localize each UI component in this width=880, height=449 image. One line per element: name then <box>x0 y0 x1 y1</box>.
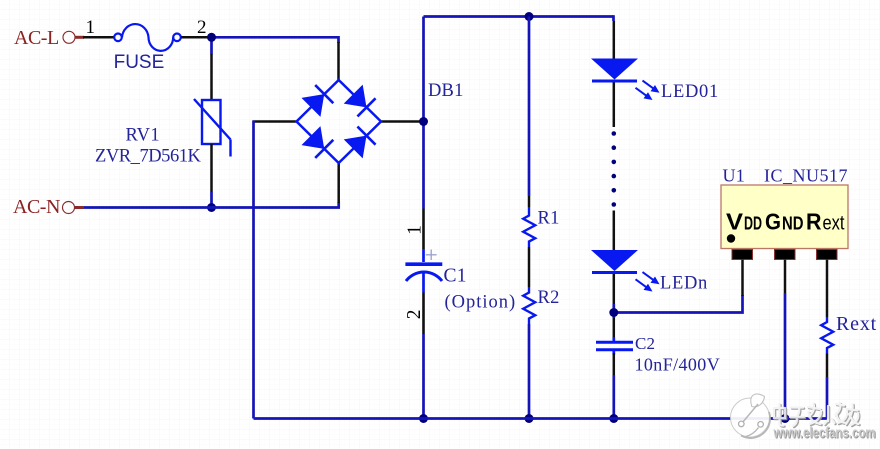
svg-text:Rext: Rext <box>836 313 877 335</box>
pin bridge top <box>337 42 340 81</box>
junction bridge plus <box>419 117 428 126</box>
svg-text:FUSE: FUSE <box>114 52 165 73</box>
dotted wire LED string continuation <box>612 131 617 207</box>
pin wire Rext lower <box>826 354 829 378</box>
pin bridge bottom <box>337 163 340 203</box>
pin wire GND <box>784 260 787 294</box>
svg-text:AC-N: AC-N <box>13 196 60 218</box>
junction C2 bottom <box>609 414 618 423</box>
pin wire VDD <box>741 260 744 297</box>
wire LED branch top corner <box>612 15 615 21</box>
wire fuse to node 2 <box>181 36 209 39</box>
pin RV1 bottom <box>210 144 213 192</box>
watermark text dianzifashaoyou <box>774 403 860 427</box>
wire LEDn to node VDD <box>612 304 615 318</box>
svg-text:G: G <box>765 209 781 235</box>
wire GND to ground rail <box>784 293 787 419</box>
wire C1 to ground rail <box>422 334 425 419</box>
diode D-bottomleft of DB1 <box>301 126 333 158</box>
wire C2 to ground rail <box>612 375 615 419</box>
port AC-N terminal circle <box>63 202 85 214</box>
svg-text:IC_NU517: IC_NU517 <box>764 166 848 186</box>
pin name Rext <box>806 209 845 235</box>
pin C1 pin1 <box>422 209 425 250</box>
pin C2 top <box>613 318 616 337</box>
port AC-L terminal circle <box>63 31 84 43</box>
wire R2 to ground rail <box>528 324 531 419</box>
wire node 2 down stub <box>210 37 213 54</box>
capacitor C1 <box>405 249 442 293</box>
svg-text:R: R <box>806 209 822 235</box>
resistor R1 <box>523 207 535 247</box>
wire R1 to R2 <box>528 247 531 287</box>
op-amp U1 body <box>721 185 848 249</box>
resistor R2 <box>523 287 535 324</box>
pin 1 marker dot <box>727 234 735 242</box>
LED01 light arrows <box>636 81 660 100</box>
wire node to VDD pin <box>614 295 743 313</box>
diode D-bottomright of DB1 <box>344 126 376 158</box>
wire LEDn anode <box>613 211 616 251</box>
svg-text:10nF/400V: 10nF/400V <box>635 355 721 375</box>
junction R2 bottom <box>525 414 534 423</box>
svg-text:1: 1 <box>86 17 96 38</box>
svg-text:R2: R2 <box>538 288 560 308</box>
wire LEDn cathode <box>613 274 616 304</box>
wire DC-minus vertical <box>252 121 255 419</box>
wire ground rail <box>254 417 828 420</box>
wire LED01 cathode <box>613 83 616 128</box>
junction RV1 / AC-N <box>207 203 216 212</box>
wire R branch upper <box>528 17 531 197</box>
svg-text:2: 2 <box>404 309 425 319</box>
pin wire Rext upper <box>826 260 829 318</box>
pin pad VDD <box>732 250 753 260</box>
svg-text:C1: C1 <box>444 266 467 287</box>
wire AC-L to fuse <box>83 36 115 39</box>
pin LED01 anode <box>613 21 616 59</box>
bridge rectifier DB1 diamond <box>297 80 382 163</box>
svg-text:R1: R1 <box>538 209 560 229</box>
wire DC-plus rail upper <box>422 17 425 209</box>
svg-text:V: V <box>726 209 744 235</box>
wire node 2 to bridge top corner <box>212 37 339 43</box>
C1 polarity plus <box>426 250 437 261</box>
diode D-topleft of DB1 <box>301 85 333 117</box>
LEDn light arrows <box>636 272 660 291</box>
wire top rail <box>424 15 614 18</box>
junction top R branch <box>525 12 534 21</box>
wire Rext to ground rail <box>826 377 829 419</box>
svg-text:(Option): (Option) <box>445 293 517 313</box>
svg-text:ND: ND <box>782 213 804 234</box>
pin bridge right <box>381 120 421 123</box>
svg-text:1: 1 <box>405 225 426 235</box>
junction C1 bottom <box>419 414 428 423</box>
svg-text:RV1: RV1 <box>126 126 160 146</box>
pin R1 top <box>528 196 531 207</box>
junction node 2 <box>207 33 216 42</box>
pin C1 pin2 <box>422 293 425 335</box>
junction GND rail <box>781 414 790 423</box>
svg-text:U1: U1 <box>723 166 745 186</box>
pin name GND <box>765 209 804 235</box>
capacitor C2 <box>596 337 633 355</box>
pin bridge left <box>253 120 297 123</box>
junction LED / VDD / C2 <box>609 308 618 317</box>
svg-text:DD: DD <box>744 213 762 234</box>
LED LED01 <box>591 59 638 82</box>
LED LEDn <box>591 250 638 273</box>
pin pad Rext <box>817 250 838 260</box>
wire AC-N horizontal <box>84 202 339 208</box>
svg-text:C2: C2 <box>635 334 655 353</box>
pin pad GND <box>775 250 796 260</box>
svg-text:www.elecfans.com: www.elecfans.com <box>773 426 876 442</box>
watermark logo disc <box>731 394 771 438</box>
resistor Rext <box>821 317 833 354</box>
svg-text:ZVR_7D561K: ZVR_7D561K <box>95 147 202 167</box>
wire RV1 to AC-N net <box>210 192 213 208</box>
svg-text:DB1: DB1 <box>428 81 464 101</box>
varistor RV1 <box>194 99 231 157</box>
watermark url <box>773 426 877 443</box>
svg-text:ext: ext <box>823 212 845 235</box>
svg-text:LED01: LED01 <box>661 82 719 102</box>
pin name VDD <box>726 209 762 235</box>
svg-text:AC-L: AC-L <box>14 27 59 49</box>
svg-text:LEDn: LEDn <box>660 274 708 294</box>
fuse FUSE <box>114 24 181 51</box>
pin C2 bottom <box>613 353 616 375</box>
svg-text:2: 2 <box>197 17 207 38</box>
pin RV1 top <box>210 54 213 100</box>
diode D-topright of DB1 <box>344 85 376 117</box>
